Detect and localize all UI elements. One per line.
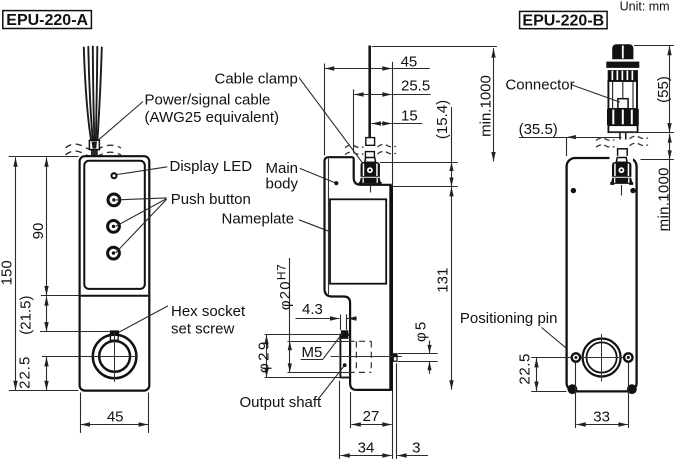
svg-text:4.3: 4.3 [302, 301, 323, 318]
label Main body [266, 160, 339, 192]
title box EPU-220-B [520, 11, 608, 29]
connector collar [608, 125, 637, 132]
svg-text:25.5: 25.5 [401, 77, 430, 94]
dim 22.5 (view A) [17, 356, 47, 391]
ext line set screw top (y=331.9) [40, 331, 110, 333]
svg-text:Positioning pin: Positioning pin [460, 310, 558, 327]
cable sleeve pieces (middle) [366, 138, 375, 146]
dim 150 [0, 157, 16, 390]
push button 3 [108, 247, 120, 259]
label Positioning pin [460, 310, 574, 354]
label Output shaft [240, 363, 347, 410]
svg-text:φ29: φ29 [255, 339, 272, 373]
dim 90 [30, 157, 47, 295]
label Connector [505, 76, 620, 102]
dim min.1000 (view B) [641, 134, 674, 232]
cable clamp (side view) [359, 158, 382, 185]
dim min.1000 (view A side) [478, 48, 495, 161]
connector barrel [608, 81, 637, 109]
svg-text:(15.4): (15.4) [434, 100, 451, 139]
connector nut [607, 109, 639, 125]
cable (view B) upper [620, 132, 626, 139]
output shaft (side view) [340, 335, 350, 378]
svg-text:(55): (55) [655, 76, 672, 103]
cover screw right [630, 188, 635, 193]
dim phi20 H7 [275, 258, 349, 373]
positioning pin (side view) [393, 353, 398, 362]
dim 4.3 [296, 301, 357, 330]
ext line x=324.4 (45 left) [324, 64, 326, 156]
svg-text:Output shaft: Output shaft [240, 394, 323, 411]
body outline (view B) [567, 158, 637, 391]
dim 25.5 [354, 77, 430, 94]
svg-text:Unit: mm: Unit: mm [620, 0, 670, 13]
label Push button + leaders [116, 191, 251, 253]
label Cable clamp [215, 70, 365, 165]
hex socket set screw (view A) [110, 330, 119, 340]
svg-text:(21.5): (21.5) [18, 296, 35, 335]
dim (21.5) [18, 296, 47, 335]
svg-text:EPU-220-B: EPU-220-B [522, 12, 604, 29]
svg-text:131: 131 [435, 268, 452, 293]
display LED [112, 173, 117, 178]
nameplate rect (side view) [330, 199, 386, 283]
dim 45 (view A bottom) [81, 393, 149, 433]
connector assembly [606, 44, 639, 132]
hidden bore dashed lines [349, 341, 372, 372]
svg-text:Display LED: Display LED [170, 158, 253, 175]
body section split line [81, 295, 149, 297]
svg-text:(AWG25 equivalent): (AWG25 equivalent) [145, 109, 280, 126]
min.1000 top ext line [372, 46, 497, 48]
label M5 [301, 333, 343, 362]
cable break wavy dashed lines (view A) [66, 144, 122, 156]
title box EPU-220-A [3, 11, 92, 29]
svg-text:Push button: Push button [171, 191, 251, 208]
svg-text:150: 150 [0, 260, 15, 285]
svg-text:45: 45 [107, 408, 124, 425]
dim phi5 [398, 320, 438, 374]
push button 1 [108, 194, 120, 206]
M5 set screw (side view) [341, 330, 349, 339]
shaft circles (view B) [572, 334, 632, 381]
connector knurled ring [608, 70, 638, 81]
svg-text:Connector: Connector [505, 76, 574, 93]
output shaft circles (view A) [93, 332, 137, 382]
cable sleeve (view B) [618, 149, 628, 158]
back plate line [391, 185, 393, 391]
svg-text:33: 33 [593, 408, 610, 425]
dim 27 [351, 392, 392, 428]
svg-text:34: 34 [358, 440, 375, 457]
dim 22.5 (view B) [516, 353, 572, 392]
svg-text:3: 3 [412, 440, 420, 457]
dim 34 [340, 381, 392, 459]
label Hex socket set screw [119, 303, 246, 338]
svg-text:Power/signal cable: Power/signal cable [145, 92, 271, 109]
cable clamp (view B) [610, 158, 633, 185]
dim 131 [435, 187, 452, 390]
cable break waves (middle) [345, 144, 396, 154]
dim (15.4) [380, 100, 458, 187]
dim phi29 [255, 335, 340, 378]
label Power/signal cable [97, 92, 279, 141]
clamp center line stub (view B) [621, 185, 623, 196]
svg-text:Hex socket: Hex socket [171, 303, 246, 320]
cable (side view) [368, 46, 371, 142]
power/signal cable wire fan [84, 46, 102, 146]
bottom corner foot right [627, 384, 637, 394]
svg-text:Cable clamp: Cable clamp [215, 70, 298, 87]
svg-text:22.5: 22.5 [516, 353, 533, 385]
ext line x=392.2 below body [392, 391, 394, 459]
dim (35.5) [519, 121, 622, 156]
svg-text:(35.5): (35.5) [519, 121, 558, 138]
top edge white-out for clamp notch [610, 156, 634, 161]
front panel (inner rounded rect) [84, 161, 145, 289]
positioning pin left (view B) [572, 353, 580, 361]
connector cap [612, 44, 633, 59]
dim 15 [372, 108, 423, 125]
svg-text:M5: M5 [302, 344, 323, 361]
dim 45 (top) [325, 53, 430, 70]
dim 33 [576, 362, 629, 428]
svg-text:body: body [266, 175, 299, 192]
bottom corner foot left [568, 384, 578, 394]
svg-text:90: 90 [30, 223, 47, 240]
svg-text:φ5: φ5 [413, 320, 430, 342]
clamp center line stub [370, 185, 372, 193]
svg-text:22.5: 22.5 [17, 356, 34, 389]
cable entry bushing [91, 150, 98, 157]
ext line bottom (y=390.6) [9, 390, 79, 392]
ext line split (y=295.8) [41, 295, 79, 297]
main body outline (view A) [80, 156, 150, 390]
svg-text:Nameplate: Nameplate [222, 210, 295, 227]
dim (55) [610, 46, 674, 133]
label Nameplate [222, 210, 354, 242]
svg-text:EPU-220-A: EPU-220-A [6, 12, 88, 29]
ext/center line shaft (y=356.5) [42, 356, 137, 358]
push button 2 [108, 221, 120, 233]
connector flange [606, 62, 639, 68]
svg-text:45: 45 [401, 53, 418, 70]
shaft axis center line [331, 356, 402, 358]
main body outline (side view) [325, 157, 391, 390]
cover screw left [571, 188, 576, 193]
inner wall line (side view left) [328, 159, 330, 295]
ext line x=353.7 (25.5 left) [353, 89, 355, 152]
svg-text:27: 27 [363, 408, 380, 425]
positioning pin right (view B) [624, 353, 632, 361]
ext line top (y=157) [9, 156, 79, 158]
svg-text:15: 15 [401, 108, 418, 125]
dim 3 [397, 363, 429, 459]
svg-text:min.1000: min.1000 [478, 75, 495, 137]
svg-text:min.1000: min.1000 [655, 167, 672, 231]
label Display LED [117, 158, 252, 175]
ext line x=392.2 (top stack right) [392, 62, 394, 185]
svg-text:set screw: set screw [171, 321, 235, 338]
cable break waves (view B) [596, 136, 648, 147]
